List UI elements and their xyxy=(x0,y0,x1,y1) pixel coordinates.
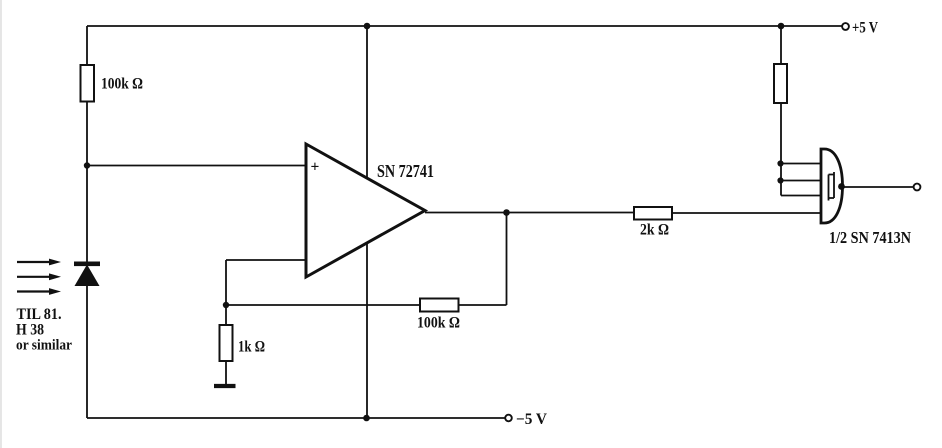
terminal +5V xyxy=(842,23,849,30)
wire: 1k resistor bottom lead xyxy=(225,361,227,385)
wire: to op-amp + input xyxy=(87,165,306,167)
wire: inverting input vertical xyxy=(225,260,227,305)
resistor R4 pull-up (vertical) xyxy=(774,64,787,103)
resistor R3 100k feedback (horizontal) xyxy=(420,299,459,312)
svg-text:H 38: H 38 xyxy=(16,322,44,339)
wire: inverting input horizontal xyxy=(226,259,306,261)
light arrow 2 xyxy=(17,273,61,280)
wire: feedback left segment xyxy=(226,304,420,306)
node: op-amp output junction xyxy=(503,209,510,216)
wire: opamp V+ supply from top rail xyxy=(366,26,368,178)
node: top rail / opamp supply junction xyxy=(364,23,371,30)
node: gate input junction A xyxy=(777,160,783,166)
svg-text:1/2 SN 7413N: 1/2 SN 7413N xyxy=(829,228,911,247)
svg-text:TIL 81.: TIL 81. xyxy=(17,306,62,323)
wire: bottom -5V rail xyxy=(87,417,505,419)
resistor R2 1k (vertical) xyxy=(220,325,233,361)
svg-text:or similar: or similar xyxy=(16,338,72,354)
wire: gate input stub 1 xyxy=(781,163,821,165)
svg-text:100k Ω: 100k Ω xyxy=(417,315,460,332)
svg-text:−5 V: −5 V xyxy=(516,411,548,428)
wire: feedback right segment xyxy=(459,304,507,306)
wire: 1k resistor top lead xyxy=(225,305,227,325)
node: gate input junction B xyxy=(777,177,783,183)
schmitt hysteresis symbol xyxy=(829,172,835,201)
node: inverting input junction xyxy=(223,302,229,308)
wire: feedback vertical to output xyxy=(506,213,508,306)
wire: pull-up resistor bottom lead xyxy=(780,103,782,196)
terminal -5V xyxy=(505,415,512,422)
resistor R1 100k (top-left, vertical) xyxy=(81,65,95,102)
photodiode D1 cathode bar xyxy=(74,262,100,267)
scan edge line xyxy=(0,0,2,448)
light arrow 3 xyxy=(17,288,61,295)
svg-text:SN 72741: SN 72741 xyxy=(377,161,434,181)
wire: left vertical mid segment xyxy=(86,102,88,263)
node: gate output junction xyxy=(838,183,845,190)
wire: opamp V- supply to bottom rail xyxy=(366,243,368,418)
node: bottom rail junction xyxy=(363,415,370,422)
light arrow 1 xyxy=(17,259,61,266)
op-amp U1 body xyxy=(306,144,425,277)
svg-text:100k Ω: 100k Ω xyxy=(101,76,143,93)
wire: pull-up resistor top lead xyxy=(780,26,782,64)
wire: left vertical upper segment xyxy=(86,26,88,65)
wire: 2k to gate input xyxy=(672,212,821,214)
photodiode D1 triangle xyxy=(75,265,100,287)
resistor R5 2k (horizontal) xyxy=(634,207,672,220)
svg-text:2k Ω: 2k Ω xyxy=(640,222,669,239)
wire: op-amp output to 2k xyxy=(425,212,634,214)
terminal: output xyxy=(914,184,921,191)
wire: gate input stub 2 xyxy=(781,180,821,182)
wire: gate output xyxy=(842,186,914,188)
ground xyxy=(214,384,236,388)
wire: left vertical lower segment xyxy=(86,286,88,418)
svg-text:+5 V: +5 V xyxy=(852,20,878,37)
svg-text:1k Ω: 1k Ω xyxy=(238,339,265,356)
node: non-inverting input tap xyxy=(84,162,90,168)
NAND gate U2 body (1/2 SN7413N) xyxy=(821,149,843,223)
node: top rail / pull-up junction xyxy=(778,23,785,30)
wire: gate input stub 3 xyxy=(781,195,821,197)
svg-text:+: + xyxy=(311,159,320,176)
wire: top +5V rail xyxy=(87,25,842,27)
